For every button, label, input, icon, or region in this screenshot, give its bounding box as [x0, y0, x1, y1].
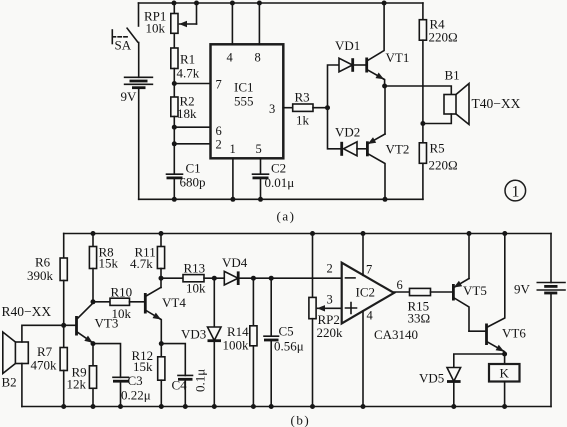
op-amp IC2 CA3140: [327, 262, 419, 343]
svg-text:9V: 9V: [514, 282, 531, 297]
wire: R10 to VT4 base: [130, 301, 145, 303]
resistor R7 470k: [31, 325, 68, 406]
node: C5 junction: [269, 276, 274, 281]
battery 9V (b): [514, 234, 565, 407]
node: VT4 emitter junction: [159, 341, 164, 346]
svg-text:3: 3: [327, 293, 333, 307]
svg-text:7: 7: [366, 263, 372, 277]
svg-text:3: 3: [269, 102, 275, 116]
svg-text:4.7k: 4.7k: [130, 256, 153, 271]
svg-text:7: 7: [216, 78, 222, 92]
resistor R11 4.7k: [130, 234, 165, 288]
svg-text:B1: B1: [445, 68, 460, 83]
wire: emitter node to speaker B1: [385, 86, 452, 95]
svg-text:VT3: VT3: [95, 316, 119, 331]
svg-text:4: 4: [227, 51, 234, 65]
svg-text:2: 2: [327, 262, 333, 276]
svg-text:10k: 10k: [186, 281, 206, 296]
svg-text:470k: 470k: [31, 358, 58, 373]
svg-text:C5: C5: [279, 324, 294, 339]
transistor VT2 (PNP): [367, 86, 409, 199]
svg-text:10k: 10k: [146, 21, 166, 36]
diode VD4: [222, 255, 248, 285]
svg-text:8: 8: [255, 51, 261, 65]
wire: op-amp output pin 6: [394, 291, 410, 293]
svg-text:1k: 1k: [296, 113, 310, 128]
wire: emitter node to relay K: [504, 354, 506, 364]
transistor VT4 (NPN): [145, 287, 186, 343]
wire: pin 1: [232, 158, 234, 199]
node: drive junction: [325, 105, 330, 110]
node: pin2 junction: [172, 141, 177, 146]
resistor R9 12k: [67, 344, 97, 407]
CIRCUIT-A: [112, 1, 525, 224]
svg-text:6: 6: [397, 278, 403, 292]
wire: R15 to VT5 base: [431, 291, 453, 293]
potentiometer RP2 220k: [309, 234, 343, 407]
wire: VD1 to VT1 base: [353, 64, 366, 66]
resistor R15 33ohm: [408, 288, 431, 325]
wire: RP1 to R1: [173, 33, 175, 48]
svg-text:R40−XX: R40−XX: [2, 304, 52, 319]
svg-text:R13: R13: [184, 261, 206, 276]
junction dots on bottom rail (b): [61, 404, 507, 409]
svg-text:R5: R5: [430, 141, 445, 156]
svg-text:0.22μ: 0.22μ: [121, 388, 151, 403]
resistor R8 15k: [89, 234, 118, 303]
svg-text:R3: R3: [295, 90, 310, 105]
potentiometer RP1 10k: [144, 3, 197, 36]
wire: node to R13: [161, 277, 183, 279]
CIRCUIT-B: [2, 231, 566, 427]
junction dots on top rail (a): [172, 1, 387, 6]
resistor R2 18k: [171, 94, 197, 121]
svg-text:C2: C2: [271, 161, 286, 176]
junction dots on top rail (b): [91, 231, 508, 236]
switch SA: [112, 28, 137, 52]
wire: node up to VD1: [328, 65, 340, 108]
resistor R5 220ohm: [419, 124, 457, 200]
svg-text:VT1: VT1: [386, 50, 410, 65]
svg-text:C3: C3: [128, 373, 143, 388]
wire: pin 5 to C2: [260, 158, 262, 174]
capacitor C5 0.56u: [264, 278, 304, 406]
op IC1 555 timer box: [211, 44, 284, 158]
wire: pin 8: [258, 3, 260, 44]
node: pin7 junction: [172, 81, 177, 86]
wire: +9V top rail (a): [139, 2, 423, 4]
node: R4/R5/speaker junction: [420, 121, 425, 126]
svg-text:VT4: VT4: [162, 295, 186, 310]
wire: ground bottom rail (a): [139, 198, 423, 200]
transistor VT6 (NPN): [487, 234, 527, 355]
svg-text:18k: 18k: [177, 106, 197, 121]
svg-text:390k: 390k: [27, 268, 54, 283]
node: pin6 junction: [172, 125, 177, 130]
svg-text:VD3: VD3: [181, 327, 206, 342]
node: R14 junction: [251, 276, 256, 281]
wire: pin 3 to R3: [283, 107, 292, 109]
svg-text:1: 1: [512, 184, 520, 201]
svg-text:R1: R1: [180, 52, 195, 67]
microphone B2 R40-XX: [2, 304, 77, 407]
transistor VT3 (NPN): [77, 303, 119, 344]
svg-text:CA3140: CA3140: [374, 327, 418, 342]
capacitor C3 0.22u: [93, 344, 151, 407]
svg-text:555: 555: [234, 94, 254, 109]
svg-text:VD4: VD4: [222, 255, 248, 270]
svg-text:680p: 680p: [180, 175, 206, 190]
wire: VT5 collector to VT6 base: [469, 330, 486, 332]
resistor R6 390k: [27, 234, 67, 326]
svg-text:VT2: VT2: [386, 142, 410, 157]
svg-text:IC1: IC1: [234, 80, 254, 95]
relay K: [489, 364, 520, 407]
node: VT1/VT2 emitter junction: [382, 84, 387, 89]
svg-text:5: 5: [256, 142, 262, 156]
resistor R3 1k: [293, 90, 313, 128]
resistor R4 220ohm: [419, 3, 457, 124]
circled figure number 1: [505, 180, 526, 201]
wire: to pin 7: [174, 83, 210, 85]
node: R8/R10/VT3 collector junction: [91, 299, 96, 304]
svg-text:12k: 12k: [67, 377, 87, 392]
svg-text:2: 2: [216, 138, 222, 152]
svg-text:15k: 15k: [133, 359, 153, 374]
svg-text:15k: 15k: [99, 256, 119, 271]
wire: rail left end down to switch SA: [138, 3, 140, 26]
wire: pin 4: [231, 3, 233, 44]
battery 9V (a): [121, 77, 153, 104]
resistor R13 10k: [183, 261, 206, 296]
svg-text:4: 4: [367, 309, 374, 323]
svg-text:VD2: VD2: [335, 125, 360, 140]
resistor R10 10k: [110, 285, 132, 322]
svg-text:VT6: VT6: [502, 326, 526, 341]
diode VD2: [335, 125, 360, 156]
svg-text:(b): (b): [291, 413, 311, 427]
speaker B1 T40-XX: [423, 68, 521, 125]
transistor VT1 (NPN): [367, 3, 410, 86]
resistor R12 15k: [132, 344, 165, 407]
wire: emitter node to VD5: [454, 354, 505, 368]
svg-text:VD5: VD5: [419, 371, 444, 386]
svg-text:K: K: [500, 366, 510, 381]
svg-text:B2: B2: [2, 375, 17, 390]
wire: VD4 to op-amp pin 2: [238, 277, 342, 279]
svg-text:C1: C1: [186, 161, 201, 176]
junction dots on bottom rail (a): [172, 197, 388, 202]
svg-text:IC2: IC2: [356, 285, 376, 300]
node: VT6 emitter junction: [502, 352, 507, 357]
svg-text:0.1μ: 0.1μ: [193, 369, 208, 392]
wire: R3 to drive node: [313, 107, 328, 109]
resistor R1 4.7k: [171, 48, 200, 81]
capacitor C1 680p: [167, 161, 206, 200]
svg-text:33Ω: 33Ω: [408, 311, 431, 326]
node: VD3 tap junction: [212, 276, 217, 281]
diode VD1: [335, 38, 360, 72]
svg-text:9V: 9V: [121, 89, 138, 104]
svg-text:(a): (a): [277, 209, 296, 224]
diode VD5: [419, 368, 461, 407]
svg-text:100k: 100k: [223, 338, 250, 353]
svg-text:220Ω: 220Ω: [429, 158, 458, 173]
svg-text:VT5: VT5: [463, 283, 487, 298]
svg-text:0.01μ: 0.01μ: [265, 175, 295, 190]
svg-text:R10: R10: [111, 285, 133, 300]
wire: to pin 2: [174, 143, 210, 145]
wire: node down to VD2: [328, 108, 342, 149]
capacitor C4 0.1u: [161, 344, 207, 407]
svg-text:4.7k: 4.7k: [177, 66, 200, 81]
wire: +9V top rail (b): [64, 233, 551, 235]
svg-text:220k: 220k: [317, 325, 344, 340]
wire: switch to battery: [138, 43, 140, 78]
wire: to pin 6: [174, 126, 210, 128]
node: R11/R13/VT4 collector junction: [159, 276, 164, 281]
svg-text:220Ω: 220Ω: [429, 30, 458, 45]
wire: R13 to VD4: [204, 277, 224, 279]
diode VD3: [181, 278, 221, 406]
wire: ground bottom rail (b): [22, 406, 551, 408]
node: VT3 emitter junction: [91, 341, 96, 346]
node: mic/VT3 base junction: [61, 323, 66, 328]
svg-text:T40−XX: T40−XX: [472, 96, 521, 111]
svg-text:6: 6: [216, 124, 222, 138]
svg-text:VD1: VD1: [335, 38, 360, 53]
svg-text:SA: SA: [115, 38, 132, 53]
transistor VT5 (PNP): [453, 234, 486, 332]
wire: node to R10: [93, 301, 110, 303]
wire: battery to bottom rail: [138, 88, 140, 200]
wire: pin 4 to ground: [362, 311, 364, 407]
wire: pin 7 to rail: [362, 234, 364, 276]
wire: R2 down to C1: [173, 117, 175, 175]
svg-text:C4: C4: [172, 378, 188, 393]
wire: R1 to R2: [173, 69, 175, 98]
capacitor C2 0.01u: [253, 161, 295, 200]
svg-text:1: 1: [230, 142, 236, 156]
svg-text:0.56μ: 0.56μ: [274, 339, 304, 354]
wire: VD2 to VT2 base: [357, 148, 367, 150]
resistor R14 100k: [223, 278, 258, 406]
